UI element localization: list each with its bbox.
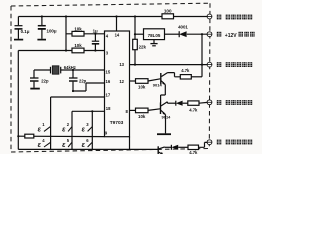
label text sensor trigger terminal (226, 15, 253, 20)
transistor Q3 9014 bottom (158, 146, 164, 155)
switch S3 (82, 122, 93, 133)
wire U2 input to diode (165, 33, 180, 35)
wire from R1 to terminal T1 (174, 16, 208, 18)
emitter arrow Q3 (161, 152, 164, 155)
wire 4.7k to terminal T4 (199, 101, 207, 104)
capacitor C2 100u electrolytic (38, 17, 46, 39)
wire pin14 VDD (116, 17, 118, 32)
svg-text:16: 16 (106, 79, 111, 84)
svg-text:1: 1 (42, 122, 45, 127)
ground for U2 (150, 40, 157, 46)
wire Q1 collector to 4.7k (179, 76, 181, 78)
svg-text:ε: ε (62, 126, 66, 133)
node junction busA pin3 wire (65, 49, 67, 51)
terminal T2 +12V input (207, 32, 212, 37)
ground bar for C4 (30, 88, 40, 90)
svg-text:+12V: +12V (225, 33, 237, 39)
svg-text:100: 100 (164, 9, 172, 14)
svg-text:1μ: 1μ (93, 28, 98, 33)
resistor R1 100 on top rail (162, 14, 174, 19)
resistor R7 10k (136, 108, 149, 113)
wire 10k to Q2 base (148, 109, 160, 111)
resistor R6 4.7k (180, 75, 191, 79)
capacitor C4 22p (30, 70, 39, 88)
capacitor C1 0.1u (15, 17, 23, 39)
node junction C5 bottom (72, 90, 74, 92)
transistor Q1 9014 (161, 73, 181, 103)
wire 22k bottom to pin13 net (134, 50, 136, 65)
wire 4.7k to +12V vertical (191, 76, 202, 78)
terminal T4 unlock output (207, 100, 212, 105)
resistor R9 4.7k (188, 145, 199, 149)
svg-text:100μ: 100μ (47, 29, 57, 34)
voltage regulator U2 78L05 (144, 29, 165, 40)
svg-text:T9703: T9703 (110, 120, 124, 126)
node junction bus A to rail (65, 15, 67, 17)
wire vertical from +12V down to 4.7k net (201, 34, 203, 77)
diode D1 4001 (179, 31, 186, 37)
ground for C1 (14, 39, 23, 41)
node junction cap C2 to rail (41, 15, 43, 17)
wire diode to terminal T2 (187, 33, 208, 35)
node junction pin14 to rail (115, 15, 117, 17)
svg-text:22k: 22k (139, 45, 147, 50)
node junction C3 top (94, 33, 96, 35)
node junction pin13 22k (134, 64, 136, 66)
svg-text:4001: 4001 (178, 24, 188, 29)
capacitor C3 1u (92, 34, 99, 51)
svg-text:2: 2 (67, 122, 70, 127)
emitter arrow Q2 (163, 112, 166, 115)
svg-text:18: 18 (106, 106, 111, 111)
wire column 3 vertical (91, 111, 93, 149)
resistor R4 22k vertical (133, 39, 138, 49)
ground for Q2 (157, 133, 171, 135)
svg-text:12: 12 (119, 79, 124, 84)
svg-text:4.7k: 4.7k (189, 107, 198, 112)
label text alarm output terminal (226, 140, 253, 145)
svg-text:6: 6 (86, 138, 89, 143)
wire Q2 collector to diode D2 (167, 102, 175, 104)
emitter arrow Q1 (162, 82, 165, 85)
svg-text:10k: 10k (138, 85, 146, 90)
node junction 22k to rail (134, 15, 136, 17)
terminal T3 code data (207, 62, 212, 67)
node junction C5 top (72, 69, 74, 71)
svg-text:3: 3 (106, 51, 109, 56)
svg-text:22p: 22p (79, 78, 87, 83)
switch S4 (38, 138, 51, 149)
svg-text:5: 5 (67, 138, 70, 143)
svg-text:0.1μ: 0.1μ (21, 29, 30, 34)
svg-text:4.7k: 4.7k (181, 68, 190, 73)
node junction green tee (201, 64, 203, 66)
svg-text:78L05: 78L05 (148, 33, 161, 38)
wire D2 to 4.7k (183, 102, 188, 104)
switch S6 (82, 138, 93, 149)
svg-text:9: 9 (105, 131, 108, 136)
svg-text:22p: 22p (41, 78, 49, 83)
enclosure dashed border (module boundary) (11, 3, 210, 152)
IC U1 T9703 body (105, 31, 130, 137)
node junction left bus and pin9 bus (17, 135, 19, 137)
label red wire color (217, 32, 222, 37)
resistor R3 10k (72, 48, 84, 53)
terminal T1 sensor trigger (207, 14, 212, 19)
terminal T5 alarm output (207, 140, 212, 145)
svg-text:3: 3 (86, 122, 89, 127)
svg-text:10k: 10k (138, 114, 146, 119)
svg-text:17: 17 (106, 92, 111, 97)
wire Q3 collector to diode D3 (165, 146, 172, 148)
svg-text:10k: 10k (74, 43, 82, 48)
wire rail to 22k (134, 17, 136, 40)
wire pin13 net to terminal T3 (130, 64, 208, 66)
svg-text:ε: ε (38, 142, 42, 149)
transistor Q2 9014 (161, 102, 168, 134)
svg-text:ε: ε (82, 126, 86, 133)
switch S2 (62, 122, 72, 133)
wire caps common to pin16 (73, 83, 105, 91)
wire left bus vertical (17, 51, 19, 150)
svg-text:13: 13 (119, 62, 124, 67)
node junction 78L05 output (134, 33, 136, 35)
wire pin17 to column 1 (51, 97, 105, 149)
capacitor C5 22p (69, 70, 78, 91)
svg-text:10k: 10k (74, 26, 82, 31)
svg-text:ε: ε (82, 142, 86, 149)
wire pin3 net (18, 50, 104, 52)
wire pin4 net (66, 33, 105, 35)
label blue wire color (217, 140, 222, 145)
svg-text:8: 8 (125, 109, 128, 114)
wire pin8 to 10k (130, 109, 136, 111)
node junction +12V tee (201, 33, 203, 35)
svg-text:9014: 9014 (162, 115, 172, 120)
svg-text:9014: 9014 (153, 82, 163, 87)
diode D3 (171, 145, 178, 150)
svg-text:4: 4 (42, 138, 45, 143)
wire +5V top rail (18, 16, 162, 18)
wire pin9 bus (switch common) (18, 135, 104, 137)
component small box in pin9 bus (25, 134, 34, 138)
resistor R2 10k (72, 31, 84, 36)
svg-text:15: 15 (106, 70, 111, 75)
diode D2 (176, 101, 183, 106)
wire column 2 vertical (71, 111, 73, 149)
label text +12V input terminal (225, 32, 255, 39)
wire 78L05 output (135, 33, 144, 35)
svg-text:4: 4 (106, 34, 109, 39)
wire bus A vertical +5V feed (65, 17, 67, 51)
wire 10k to Q1 base (148, 79, 160, 81)
crystal X1 64kHz (34, 66, 105, 74)
svg-text:64kHz: 64kHz (64, 65, 76, 70)
svg-text:ε: ε (62, 142, 66, 149)
label green wire color (217, 62, 222, 67)
svg-text:14: 14 (115, 33, 120, 38)
wire pin18 net (72, 110, 105, 112)
label yellow wire color (217, 100, 222, 105)
resistor R8 4.7k (188, 101, 199, 105)
wire IC right edge drop to bottom rail (129, 137, 131, 150)
wire D3 to 4.7k (178, 146, 188, 148)
svg-text:ε: ε (38, 126, 42, 133)
node junction column 3 tee (91, 110, 93, 112)
ground for C2 (37, 39, 46, 41)
svg-text:4.7k: 4.7k (189, 150, 198, 154)
wire pin12 to 10k (130, 80, 136, 82)
node junction C3 bottom (94, 49, 96, 51)
wire 4.7k to terminal T5 (199, 142, 208, 147)
switch S5 (62, 138, 72, 149)
label text unlock output terminal (226, 100, 253, 105)
label text code data terminal (226, 62, 253, 67)
label brown wire color (217, 15, 222, 20)
switch S1 (38, 122, 51, 133)
wire bottom rail (18, 148, 158, 150)
resistor R5 10k (136, 79, 149, 84)
